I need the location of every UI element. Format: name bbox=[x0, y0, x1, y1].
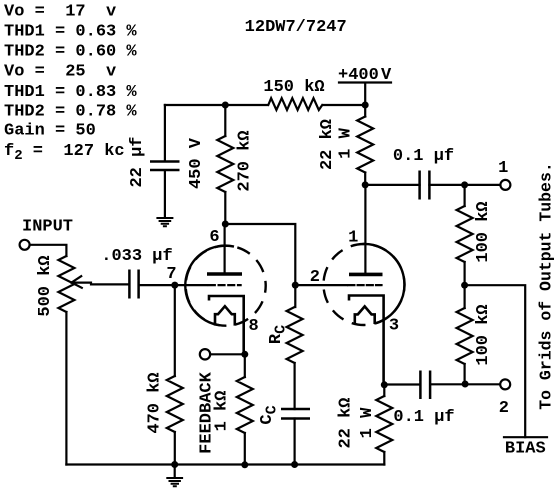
svg-text:To Grids of Output Tubes.: To Grids of Output Tubes. bbox=[537, 162, 556, 410]
node out2 bbox=[462, 381, 469, 388]
capacitor Cc bbox=[281, 409, 310, 419]
svg-text:Vo = 17 v: Vo = 17 v bbox=[4, 3, 116, 22]
ground bottom rail bbox=[174, 465, 176, 478]
node out1/100k bbox=[461, 181, 468, 188]
capacitor 0.1 uf bottom bbox=[420, 371, 430, 400]
resistor 100 kOhm upper bbox=[464, 185, 466, 285]
svg-text:470 kΩ: 470 kΩ bbox=[146, 372, 165, 433]
node pin6 plate bbox=[222, 221, 229, 228]
measurement text block bbox=[4, 3, 137, 165]
svg-text:1 kΩ: 1 kΩ bbox=[213, 391, 232, 432]
resistor 1 kOhm bbox=[244, 354, 246, 465]
node ground rail bbox=[171, 461, 178, 468]
tube V1 plate bbox=[224, 224, 226, 272]
node top rail / 270k bbox=[222, 102, 229, 109]
svg-text:12DW7/7247: 12DW7/7247 bbox=[245, 18, 347, 37]
tube V2 solid arc bbox=[363, 244, 405, 323]
capacitor .033 uf bbox=[129, 270, 138, 299]
+400 V supply bbox=[339, 83, 391, 106]
wire cap to out1 bbox=[429, 184, 500, 186]
tube V2 dashed envelope bbox=[324, 244, 405, 325]
svg-text:0.1 µf: 0.1 µf bbox=[393, 147, 454, 166]
svg-text:THD2 = 0.78 %: THD2 = 0.78 % bbox=[4, 102, 137, 121]
output terminal 1 bbox=[500, 180, 510, 190]
wire cap to out2 bbox=[430, 383, 500, 385]
svg-text:2: 2 bbox=[310, 268, 320, 287]
ground under 22uf bbox=[156, 218, 173, 226]
wiper arrow bbox=[72, 276, 92, 288]
resistor 270 kOhm bbox=[217, 136, 233, 192]
svg-text:Vo = 25 v: Vo = 25 v bbox=[4, 63, 116, 82]
node Cc rail bbox=[291, 461, 298, 468]
wire cathode2 to cap bbox=[384, 383, 420, 385]
svg-text:8: 8 bbox=[248, 317, 258, 336]
tube V1 dashed envelope bbox=[186, 246, 266, 326]
svg-text:22 kΩ: 22 kΩ bbox=[337, 397, 356, 448]
svg-text:1 W: 1 W bbox=[337, 127, 356, 158]
node 1k rail bbox=[241, 461, 248, 468]
wire bias tap to BIAS bbox=[465, 285, 526, 437]
svg-text:Gain = 50: Gain = 50 bbox=[4, 122, 96, 141]
tube V1 grid bbox=[175, 284, 207, 286]
resistor 150 kOhm bbox=[268, 98, 322, 110]
resistor 22 kOhm 1W plate bbox=[364, 105, 366, 185]
svg-text:22 kΩ: 22 kΩ bbox=[318, 119, 337, 170]
node grid2/Rc bbox=[292, 282, 299, 289]
svg-text:1: 1 bbox=[498, 159, 508, 178]
svg-text:INPUT: INPUT bbox=[22, 218, 73, 237]
resistor Rc bbox=[294, 285, 297, 409]
tube V1 solid arc bbox=[185, 246, 234, 326]
svg-text:450 V: 450 V bbox=[187, 137, 206, 189]
node grid1 bbox=[171, 282, 178, 289]
resistor 22 kOhm 1W cathode bbox=[383, 385, 385, 465]
svg-text:BIAS: BIAS bbox=[505, 440, 546, 459]
tube V2 plate bbox=[364, 185, 366, 273]
svg-text:THD2 = 0.60 %: THD2 = 0.60 % bbox=[4, 43, 137, 62]
wire plate2 to cap bbox=[365, 184, 419, 186]
node plate2 bbox=[362, 181, 369, 188]
wire feedback to cathode node bbox=[210, 353, 245, 355]
BIAS terminal bbox=[504, 436, 547, 438]
tube V1 cathode bbox=[209, 296, 244, 354]
resistor 100 kOhm lower bbox=[464, 285, 466, 384]
output terminal 2 bbox=[500, 379, 510, 389]
capacitor 22uf stems bbox=[164, 105, 166, 217]
svg-text:500 kΩ: 500 kΩ bbox=[36, 255, 55, 316]
svg-text:150 kΩ: 150 kΩ bbox=[263, 78, 324, 97]
tube V2 heater bbox=[355, 306, 375, 324]
svg-text:THD1 = 0.63 %: THD1 = 0.63 % bbox=[4, 23, 137, 42]
capacitor 22uf plates bbox=[150, 162, 180, 171]
FEEDBACK terminal bbox=[200, 349, 210, 359]
wire cap to grid1 bbox=[139, 284, 175, 286]
node top rail / +400 bbox=[362, 102, 369, 109]
wire plate1 to grid2 bbox=[225, 224, 295, 285]
svg-text:0.1 µf: 0.1 µf bbox=[393, 408, 454, 427]
svg-text:22 µf: 22 µf bbox=[128, 136, 147, 187]
node cathode2 bbox=[381, 381, 388, 388]
svg-text:V: V bbox=[381, 66, 392, 85]
svg-text:1: 1 bbox=[348, 228, 358, 247]
svg-text:THD1 = 0.83 %: THD1 = 0.83 % bbox=[4, 83, 137, 102]
tube V2 grid bbox=[295, 284, 347, 286]
svg-text:2: 2 bbox=[499, 399, 509, 418]
wire top rail left bbox=[165, 104, 267, 106]
bottom rail bbox=[66, 463, 384, 465]
svg-text:100 kΩ: 100 kΩ bbox=[474, 304, 493, 365]
svg-text:6: 6 bbox=[209, 228, 219, 247]
svg-text:+400: +400 bbox=[338, 66, 379, 85]
tube V1 heater bbox=[215, 306, 235, 325]
svg-text:1 W: 1 W bbox=[358, 407, 377, 438]
wire wiper to cap bbox=[91, 283, 129, 285]
tube V2 cathode bbox=[349, 296, 384, 385]
node cathode1 bbox=[241, 351, 248, 358]
potentiometer 500 kOhm bbox=[58, 256, 74, 312]
svg-text:270 kΩ: 270 kΩ bbox=[236, 130, 255, 191]
svg-text:f2 = 127 kc: f2 = 127 kc bbox=[4, 142, 125, 164]
wire top rail right bbox=[323, 104, 365, 106]
svg-text:100 kΩ: 100 kΩ bbox=[474, 201, 493, 262]
capacitor 0.1 uf top bbox=[420, 171, 430, 200]
svg-text:.033 µf: .033 µf bbox=[101, 247, 172, 266]
resistor 470 kOhm bbox=[174, 285, 176, 464]
wire input to pot bbox=[30, 245, 66, 256]
svg-text:3: 3 bbox=[389, 316, 399, 335]
svg-text:7: 7 bbox=[166, 265, 176, 284]
node bias tap bbox=[461, 282, 468, 289]
